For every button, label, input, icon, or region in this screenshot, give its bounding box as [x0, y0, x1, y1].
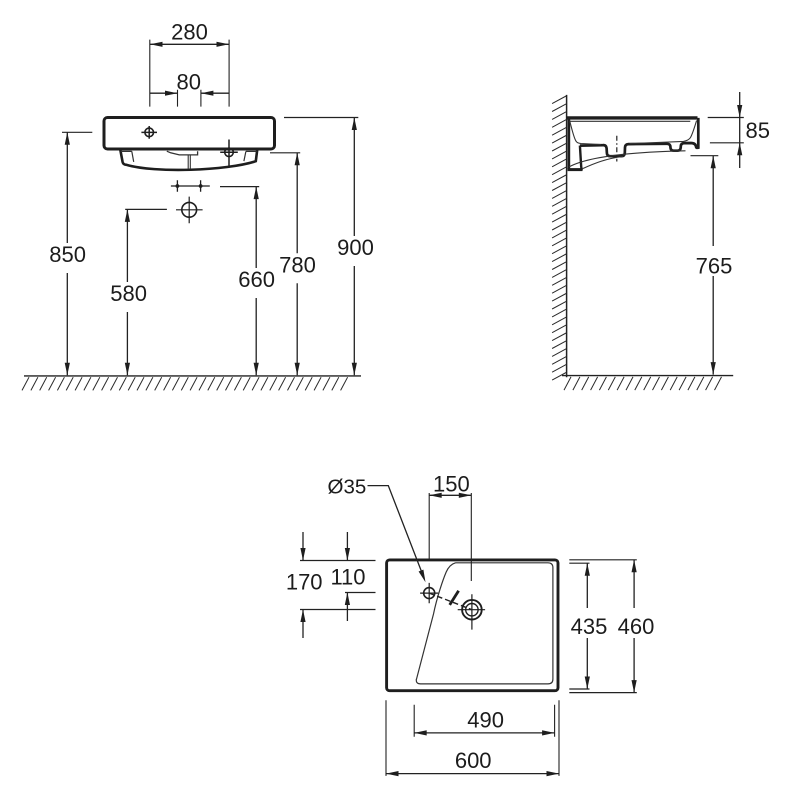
dimension 660 reference bar — [220, 186, 259, 188]
front view ground line — [24, 375, 361, 377]
dimension 80 text — [177, 70, 201, 95]
dimension 900 text — [337, 235, 374, 260]
svg-text:170: 170 — [286, 569, 323, 594]
front view: basin underside outline — [120, 149, 257, 170]
dimension 150 extension lines — [429, 493, 471, 581]
front view: right faucet hole crosshair — [220, 140, 238, 166]
dimension 435 reference bars — [569, 563, 589, 689]
front view: basin left tab lines — [121, 151, 134, 162]
side view: back support foot thick line — [568, 168, 583, 171]
dimension 780 line and arrows — [295, 153, 300, 375]
dimension 435 text — [571, 614, 608, 639]
dimension 780 reference bar — [270, 152, 300, 154]
dimension 85 text — [746, 118, 770, 143]
plan view: centreline faucet to drain dash-dot — [429, 593, 472, 610]
svg-text:490: 490 — [467, 707, 504, 732]
dimension 460 text — [618, 614, 655, 639]
side view: deck top thick line — [567, 116, 698, 119]
dimension 490 text — [467, 707, 504, 732]
svg-text:80: 80 — [177, 70, 201, 95]
svg-text:600: 600 — [455, 748, 492, 773]
dimension 850 text — [49, 242, 86, 267]
dimension 900 reference bar — [284, 117, 358, 119]
dimension 110 text — [330, 564, 365, 589]
plan view: bowl edge curve — [416, 563, 455, 680]
side view ground line — [562, 375, 733, 377]
dimension 660 line and arrows — [254, 187, 259, 376]
svg-text:Ø35: Ø35 — [328, 476, 367, 499]
dimension 80 lines and arrows — [150, 91, 229, 96]
front view: basin right tab lines — [244, 151, 257, 161]
dimension 85 arrows — [737, 92, 742, 168]
svg-text:110: 110 — [330, 564, 365, 589]
dimension 765 reference bar — [691, 155, 719, 157]
svg-text:280: 280 — [171, 20, 208, 45]
dimension 170 text — [286, 569, 323, 594]
plan view: thick tick mark on centreline — [450, 591, 459, 605]
dimension 490 extension lines — [414, 705, 554, 737]
front view: washbasin deck outline — [104, 118, 275, 150]
dimension 765 line and arrows — [711, 156, 716, 375]
front view: drain hole crosshair — [176, 197, 203, 224]
dimension 660 text — [238, 267, 275, 292]
front view: drain pipe lines — [188, 155, 190, 169]
label diameter 35 text — [328, 476, 367, 499]
dimension 580 reference bar — [125, 208, 167, 210]
side view: wall hatching — [552, 96, 566, 380]
side view: bowl back wall thin line — [570, 121, 601, 145]
side view: lower sweep curve 1 — [569, 151, 685, 167]
plan view: faucet hole circle — [420, 583, 438, 603]
dimension 490 line and arrows — [414, 730, 554, 735]
dimension 765 text — [696, 254, 733, 279]
side view ground hatching — [564, 377, 722, 390]
dimension 280 line and arrows — [150, 42, 229, 47]
dimension 85 reference bars — [708, 118, 744, 143]
front view: fixing holes line and markers — [171, 180, 210, 191]
dimension 150 text — [433, 471, 470, 496]
dimension 460 line and arrows — [632, 560, 637, 693]
svg-text:765: 765 — [696, 254, 733, 279]
side view: bowl front wall thin line — [630, 121, 697, 144]
dimension 150 line and arrows — [429, 493, 471, 498]
side view: drain centreline dash-dot — [616, 136, 618, 162]
svg-text:435: 435 — [571, 614, 608, 639]
svg-text:900: 900 — [337, 235, 374, 260]
svg-text:780: 780 — [279, 252, 316, 277]
dimension 80 extension lines — [178, 90, 201, 107]
svg-text:660: 660 — [238, 267, 275, 292]
dimension 850 line and arrows — [65, 132, 70, 375]
dimension 600 extension lines — [386, 700, 559, 776]
side view: underside thick profile with drain channel and front edge — [580, 118, 698, 156]
dimension 435 line and arrows — [585, 563, 590, 689]
side view: lower sweep curve 2 — [583, 157, 623, 169]
side view: rim inner thin line — [569, 120, 690, 122]
dimension 110 arrows — [345, 532, 350, 621]
plan view: outer rim rectangle — [387, 560, 558, 691]
plan view: drain circles — [458, 594, 485, 629]
plan view: inner rim line — [416, 563, 553, 684]
svg-text:460: 460 — [618, 614, 655, 639]
svg-text:85: 85 — [746, 118, 770, 143]
svg-text:580: 580 — [110, 281, 147, 306]
front view: left faucet hole crosshair — [141, 126, 157, 139]
label diameter 35 leader line and arrow — [368, 486, 426, 583]
dimension 600 line and arrows — [386, 771, 559, 776]
dimension 850 reference bar — [62, 131, 92, 133]
dimension 280 text — [171, 20, 208, 45]
svg-text:150: 150 — [433, 471, 470, 496]
front view: overflow boss — [167, 151, 198, 155]
dimension 280 extension lines — [150, 40, 229, 107]
side view: wall line — [566, 95, 568, 377]
dimension 170 arrows — [300, 532, 305, 638]
dimension 170 and 110 reference lines — [300, 561, 376, 610]
side view: back edge against wall thick line — [568, 118, 571, 169]
svg-text:850: 850 — [49, 242, 86, 267]
dimension 900 line and arrows — [352, 118, 357, 376]
front view ground hatching — [22, 377, 348, 390]
side view: back bracket right edge — [580, 146, 583, 170]
dimension 780 text — [279, 252, 316, 277]
dimension 460 reference bars — [569, 560, 637, 693]
dimension 580 line and arrows — [125, 209, 130, 375]
dimension 580 text — [110, 281, 147, 306]
dimension 600 text — [455, 748, 492, 773]
